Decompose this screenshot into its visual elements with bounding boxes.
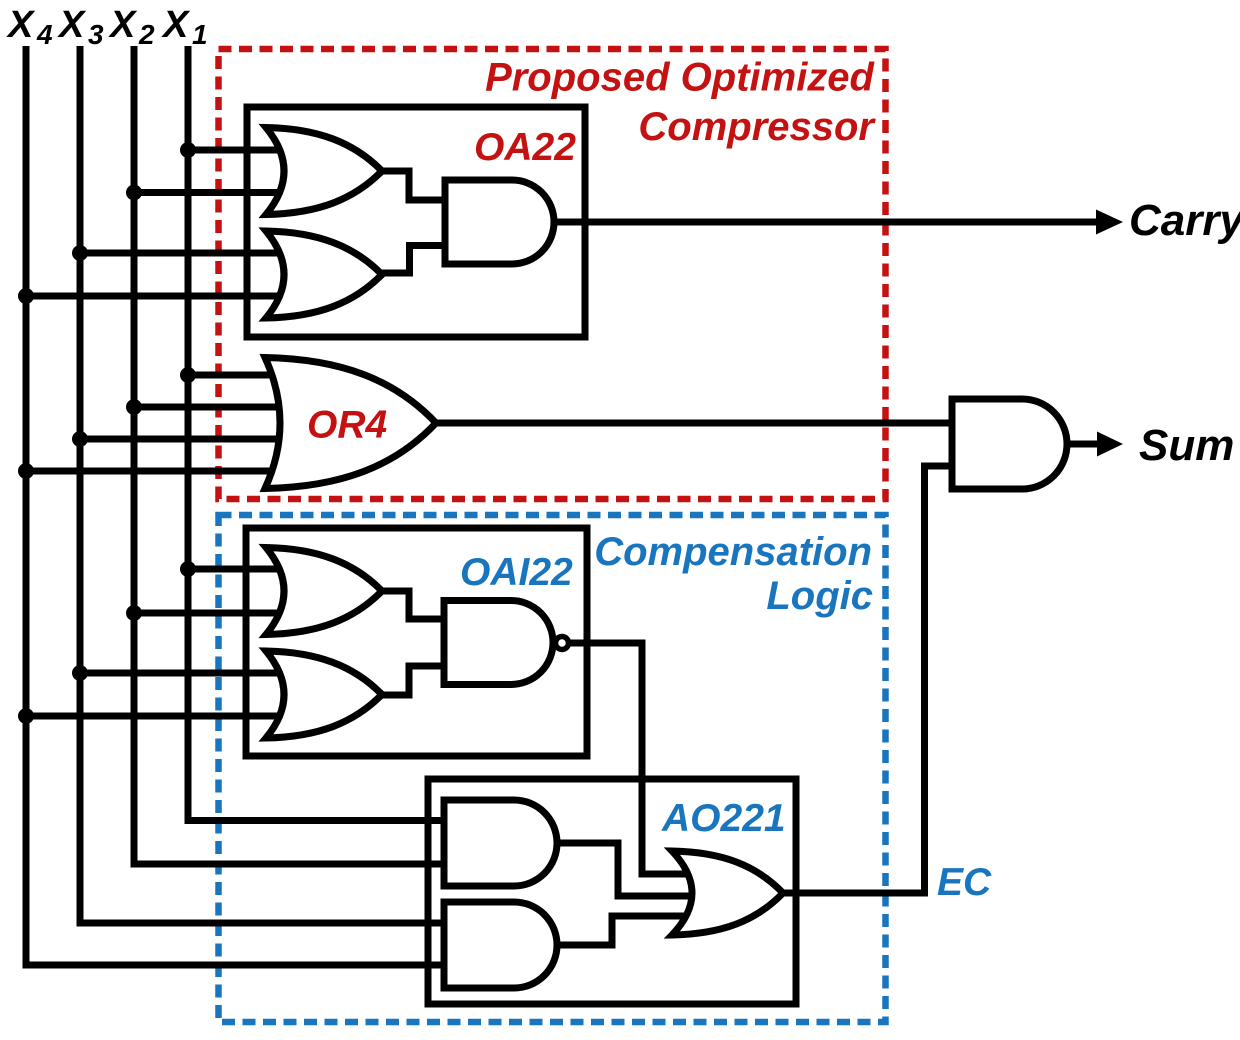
svg-text:OA22: OA22 bbox=[474, 126, 576, 169]
svg-text:Logic: Logic bbox=[766, 574, 873, 618]
svg-text:X: X bbox=[57, 4, 87, 46]
svg-text:X: X bbox=[108, 4, 138, 46]
svg-text:OR4: OR4 bbox=[307, 404, 388, 447]
svg-text:OAI22: OAI22 bbox=[460, 551, 573, 594]
svg-text:Compressor: Compressor bbox=[638, 105, 876, 149]
svg-text:X: X bbox=[6, 4, 36, 46]
svg-text:Carry: Carry bbox=[1129, 196, 1240, 245]
svg-text:Compensation: Compensation bbox=[594, 530, 872, 574]
svg-text:EC: EC bbox=[937, 861, 992, 904]
svg-text:1: 1 bbox=[192, 19, 208, 50]
svg-text:3: 3 bbox=[88, 19, 104, 50]
svg-text:Sum: Sum bbox=[1139, 421, 1234, 470]
svg-text:Proposed Optimized: Proposed Optimized bbox=[485, 56, 875, 100]
svg-text:2: 2 bbox=[138, 19, 155, 50]
svg-text:X: X bbox=[161, 4, 191, 46]
svg-text:AO221: AO221 bbox=[661, 797, 786, 840]
svg-text:4: 4 bbox=[36, 19, 53, 50]
